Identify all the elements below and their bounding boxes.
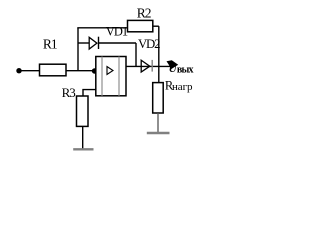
node junction dot (inverting input) [92, 68, 97, 73]
wire R load to ground [157, 113, 159, 132]
wire VD1 cathode to output branch [99, 42, 137, 44]
wire feedback vertical left [77, 28, 79, 71]
wire op-amp output [126, 65, 171, 67]
input terminal dot [16, 68, 21, 73]
wire input to R1 [19, 70, 40, 72]
wire VD1 branch vertical [135, 43, 137, 67]
diode VD2 [141, 60, 150, 72]
wire R1 to op-amp input [66, 70, 96, 72]
op-amp triangle symbol [107, 67, 113, 75]
wire non-inverting input from R3 [83, 90, 96, 97]
svg-text:R1: R1 [43, 37, 57, 52]
svg-text:нагр: нагр [172, 81, 193, 93]
resistor R3 [77, 96, 89, 126]
svg-text:вых: вых [177, 64, 194, 75]
wire VD1 anode [78, 42, 89, 44]
output arrow [167, 60, 179, 69]
diode VD1 cathode bar [98, 37, 100, 49]
wire R2 branch vertical down to output node and load [158, 26, 160, 82]
wire top to R2 [77, 27, 127, 29]
diode VD2 cathode bar [151, 60, 153, 72]
wire R2 right [153, 25, 159, 27]
op-amp internal divider right [118, 57, 120, 96]
op-amp U1 box [96, 57, 126, 96]
ground right [147, 132, 170, 134]
resistor R1 [40, 64, 67, 76]
svg-text:R2: R2 [137, 6, 151, 21]
resistor R load [153, 83, 164, 113]
svg-text:VD1: VD1 [106, 25, 128, 39]
wire R3 to ground [82, 126, 84, 148]
diode VD1 [89, 37, 97, 49]
svg-text:R3: R3 [62, 85, 76, 100]
ground left [73, 148, 93, 150]
svg-text:VD2: VD2 [138, 37, 160, 51]
op-amp internal divider left [101, 57, 103, 96]
resistor R2 [128, 20, 153, 31]
